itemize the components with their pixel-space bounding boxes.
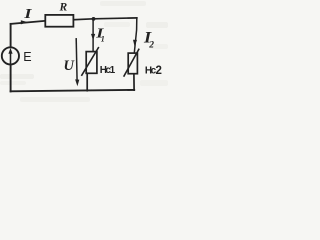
svg-text:2: 2 xyxy=(156,65,162,77)
svg-text:R: R xyxy=(59,2,68,14)
svg-text:I: I xyxy=(23,6,32,22)
svg-text:2: 2 xyxy=(148,40,154,50)
svg-text:1: 1 xyxy=(101,34,105,43)
svg-text:U: U xyxy=(64,58,76,74)
svg-text:1: 1 xyxy=(110,65,116,76)
svg-text:E: E xyxy=(23,50,31,64)
